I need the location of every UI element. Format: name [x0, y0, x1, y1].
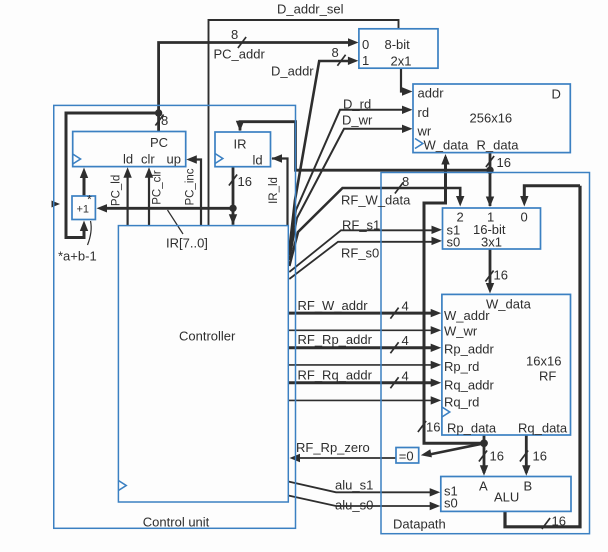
svg-text:0: 0 — [521, 210, 528, 225]
svg-text:1: 1 — [362, 53, 369, 68]
svg-text:addr: addr — [418, 86, 445, 101]
svg-text:D_rd: D_rd — [343, 97, 371, 112]
svg-text:Rq_addr: Rq_addr — [444, 378, 495, 393]
svg-text:RF_Rp_addr: RF_Rp_addr — [298, 332, 373, 347]
svg-text:W_data: W_data — [486, 297, 532, 312]
svg-text:IR[7..0]: IR[7..0] — [166, 236, 208, 251]
svg-text:16: 16 — [552, 514, 566, 529]
svg-text:4: 4 — [402, 299, 409, 314]
svg-text:A: A — [479, 479, 488, 494]
svg-text:D_addr: D_addr — [271, 64, 314, 79]
svg-text:alu_s0: alu_s0 — [335, 498, 373, 513]
svg-text:Rq_rd: Rq_rd — [444, 395, 479, 410]
svg-text:up: up — [167, 152, 181, 167]
svg-text:Control unit: Control unit — [143, 515, 210, 530]
svg-text:ld: ld — [123, 152, 133, 167]
svg-text:RF_s1: RF_s1 — [342, 218, 380, 233]
svg-text:16: 16 — [497, 155, 511, 170]
svg-text:rd: rd — [418, 105, 430, 120]
svg-text:RF_W_data: RF_W_data — [341, 193, 411, 208]
svg-text:RF_s0: RF_s0 — [341, 246, 379, 261]
svg-text:ALU: ALU — [494, 490, 519, 505]
svg-text:PC_inc: PC_inc — [185, 168, 197, 205]
svg-text:*a+b-1: *a+b-1 — [58, 249, 97, 264]
svg-text:D_addr_sel: D_addr_sel — [277, 2, 344, 17]
svg-text:W_addr: W_addr — [444, 308, 490, 323]
svg-text:alu_s1: alu_s1 — [335, 478, 373, 493]
svg-text:s0: s0 — [447, 235, 461, 250]
svg-text:D_wr: D_wr — [342, 113, 373, 128]
svg-text:16: 16 — [426, 420, 440, 435]
svg-text:8: 8 — [332, 45, 339, 60]
svg-text:16: 16 — [490, 449, 504, 464]
svg-text:4: 4 — [402, 369, 409, 384]
svg-text:PC: PC — [150, 135, 168, 150]
svg-text:s0: s0 — [444, 496, 458, 511]
svg-text:IR_ld: IR_ld — [268, 177, 280, 204]
svg-text:clr: clr — [141, 152, 155, 167]
svg-text:*: * — [87, 193, 92, 207]
svg-text:0: 0 — [362, 37, 369, 52]
svg-text:Datapath: Datapath — [393, 517, 446, 532]
svg-text:IR: IR — [234, 137, 247, 152]
svg-text:W_data: W_data — [424, 138, 470, 153]
svg-text:Controller: Controller — [179, 329, 236, 344]
svg-text:Rq_data: Rq_data — [518, 421, 568, 436]
svg-text:PC_clr: PC_clr — [152, 170, 164, 205]
svg-text:RF_Rp_zero: RF_Rp_zero — [296, 440, 370, 455]
svg-text:8: 8 — [402, 174, 409, 189]
svg-text:3x1: 3x1 — [481, 235, 502, 250]
svg-text:2x1: 2x1 — [391, 54, 412, 69]
svg-text:8: 8 — [231, 27, 238, 42]
svg-text:16: 16 — [494, 268, 508, 283]
svg-text:Rp_data: Rp_data — [447, 421, 497, 436]
svg-text:16x16: 16x16 — [526, 354, 561, 369]
svg-text:16: 16 — [533, 449, 547, 464]
svg-text:8-bit: 8-bit — [385, 37, 411, 52]
svg-text:RF_W_addr: RF_W_addr — [298, 298, 369, 313]
svg-text:Rp_addr: Rp_addr — [444, 342, 495, 357]
svg-text:8: 8 — [161, 113, 168, 128]
svg-text:PC_addr: PC_addr — [214, 47, 266, 62]
svg-text:wr: wr — [417, 124, 432, 139]
svg-text:W_wr: W_wr — [444, 324, 478, 339]
svg-text:=0: =0 — [399, 448, 414, 463]
svg-text:4: 4 — [402, 333, 409, 348]
svg-text:ld: ld — [253, 153, 263, 168]
svg-text:RF_Rq_addr: RF_Rq_addr — [298, 368, 373, 383]
svg-text:PC_ld: PC_ld — [111, 175, 123, 206]
svg-text:D: D — [552, 87, 561, 102]
svg-text:256x16: 256x16 — [470, 111, 513, 126]
svg-text:RF: RF — [539, 369, 556, 384]
svg-text:B: B — [524, 479, 533, 494]
svg-text:Rp_rd: Rp_rd — [444, 359, 479, 374]
svg-text:16: 16 — [238, 174, 252, 189]
svg-text:R_data: R_data — [477, 138, 520, 153]
